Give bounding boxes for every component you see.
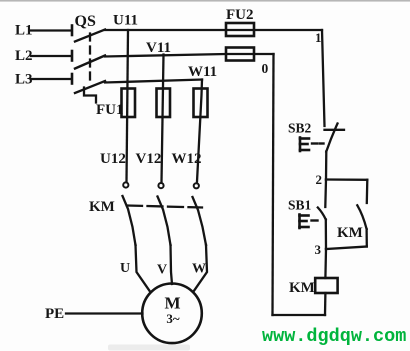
contactor KM main pole 2 terminal circle [158, 183, 163, 188]
switch QS pole 2 blade [75, 56, 105, 69]
svg-text:U12: U12 [100, 151, 126, 167]
switch QS pole 3 contact bar [71, 74, 74, 84]
svg-text:0: 0 [262, 61, 269, 76]
contactor KM main pole 3 terminal circle [194, 183, 199, 188]
pushbutton SB2 actuator E [300, 138, 309, 152]
svg-text:SB1: SB1 [288, 198, 312, 213]
wire L3 [31, 78, 71, 80]
wire KM aux lower [365, 229, 367, 247]
wire node2 to SB1 [324, 180, 327, 208]
wire phase V vertical (V11-FU1-V12) [162, 55, 164, 183]
wire U to motor [136, 245, 151, 292]
svg-text:U11: U11 [113, 13, 138, 29]
wire L1 [31, 29, 71, 31]
contactor KM main pole 3 blade [193, 197, 207, 245]
svg-text:U: U [120, 261, 130, 276]
svg-text:V12: V12 [136, 151, 162, 167]
wire PE [66, 312, 143, 314]
pushbutton SB1 actuator E [300, 215, 309, 229]
contactor KM main linkage dashed line [127, 206, 202, 208]
svg-text:3~: 3~ [166, 311, 180, 326]
motor M circle [142, 284, 202, 344]
svg-text:3: 3 [315, 242, 322, 257]
wire node3 to coil [324, 249, 327, 278]
svg-text:V11: V11 [146, 40, 171, 56]
svg-text:www.dgdqw.com: www.dgdqw.com [262, 326, 406, 347]
switch QS handle [84, 88, 96, 103]
wire phase U vertical (U11-FU1-U12) [127, 30, 129, 182]
wire coil to bottom [324, 293, 327, 315]
wire row U11 [105, 29, 322, 31]
contactor KM main pole 1 terminal circle [123, 182, 128, 187]
svg-text:FU1: FU1 [96, 102, 124, 118]
pushbutton SB2 actuator dashes [312, 142, 317, 144]
svg-text:1: 1 [315, 30, 322, 45]
cropped caption remnant [108, 345, 190, 351]
svg-text:2: 2 [316, 172, 323, 187]
svg-text:QS: QS [75, 13, 96, 30]
pushbutton SB2 blade [326, 124, 337, 152]
svg-text:M: M [164, 294, 180, 313]
top scan border [0, 0, 410, 2]
fuse FU2 upper [226, 23, 254, 36]
switch QS pole 3 blade [75, 81, 105, 93]
contactor coil KM [315, 278, 337, 293]
switch QS pole 1 contact bar [71, 26, 74, 36]
wire SB1 to node 3 [325, 220, 328, 250]
svg-text:W: W [192, 262, 206, 277]
pushbutton SB2 fixed contact tick [325, 129, 345, 131]
fuse FU1 phase W [194, 89, 208, 118]
svg-text:FU2: FU2 [226, 7, 254, 23]
wire node0 vertical [273, 54, 274, 315]
pushbutton SB1 blade [318, 208, 326, 220]
wire row W11 [105, 80, 202, 83]
svg-text:PE: PE [45, 306, 64, 322]
svg-text:W11: W11 [188, 64, 217, 80]
wire node1 vertical [322, 30, 325, 126]
wire row V11 [105, 54, 274, 57]
wire bottom return [273, 314, 326, 316]
svg-text:V: V [157, 263, 167, 278]
wire V to motor [171, 245, 173, 284]
svg-text:KM: KM [289, 280, 315, 296]
wire node3 branch to KM aux [326, 247, 367, 250]
fuse FU1 phase U [122, 89, 136, 118]
svg-text:KM: KM [89, 199, 115, 215]
wire W to motor [194, 245, 208, 292]
fuse FU1 phase V [157, 89, 171, 118]
switch QS pole 2 contact bar [71, 51, 74, 61]
fuse FU2 lower [226, 48, 254, 61]
switch QS pole 1 blade [75, 30, 105, 42]
svg-text:W12: W12 [172, 151, 202, 167]
contactor KM auxiliary blade [357, 205, 366, 229]
wire SB2 to node 2 [325, 152, 328, 180]
svg-text:SB2: SB2 [288, 121, 312, 136]
contactor KM main pole 2 blade [158, 197, 171, 246]
wire phase W vertical (W11-FU1-W12) [197, 80, 202, 182]
pushbutton SB1 actuator dash [312, 219, 318, 221]
switch QS linkage dashed line [89, 34, 91, 85]
wire L2 [31, 55, 71, 57]
wire node2 branch to KM aux [326, 178, 367, 181]
wire KM aux upper [366, 180, 369, 203]
contactor KM main pole 1 blade [123, 196, 136, 245]
svg-text:KM: KM [337, 225, 363, 241]
